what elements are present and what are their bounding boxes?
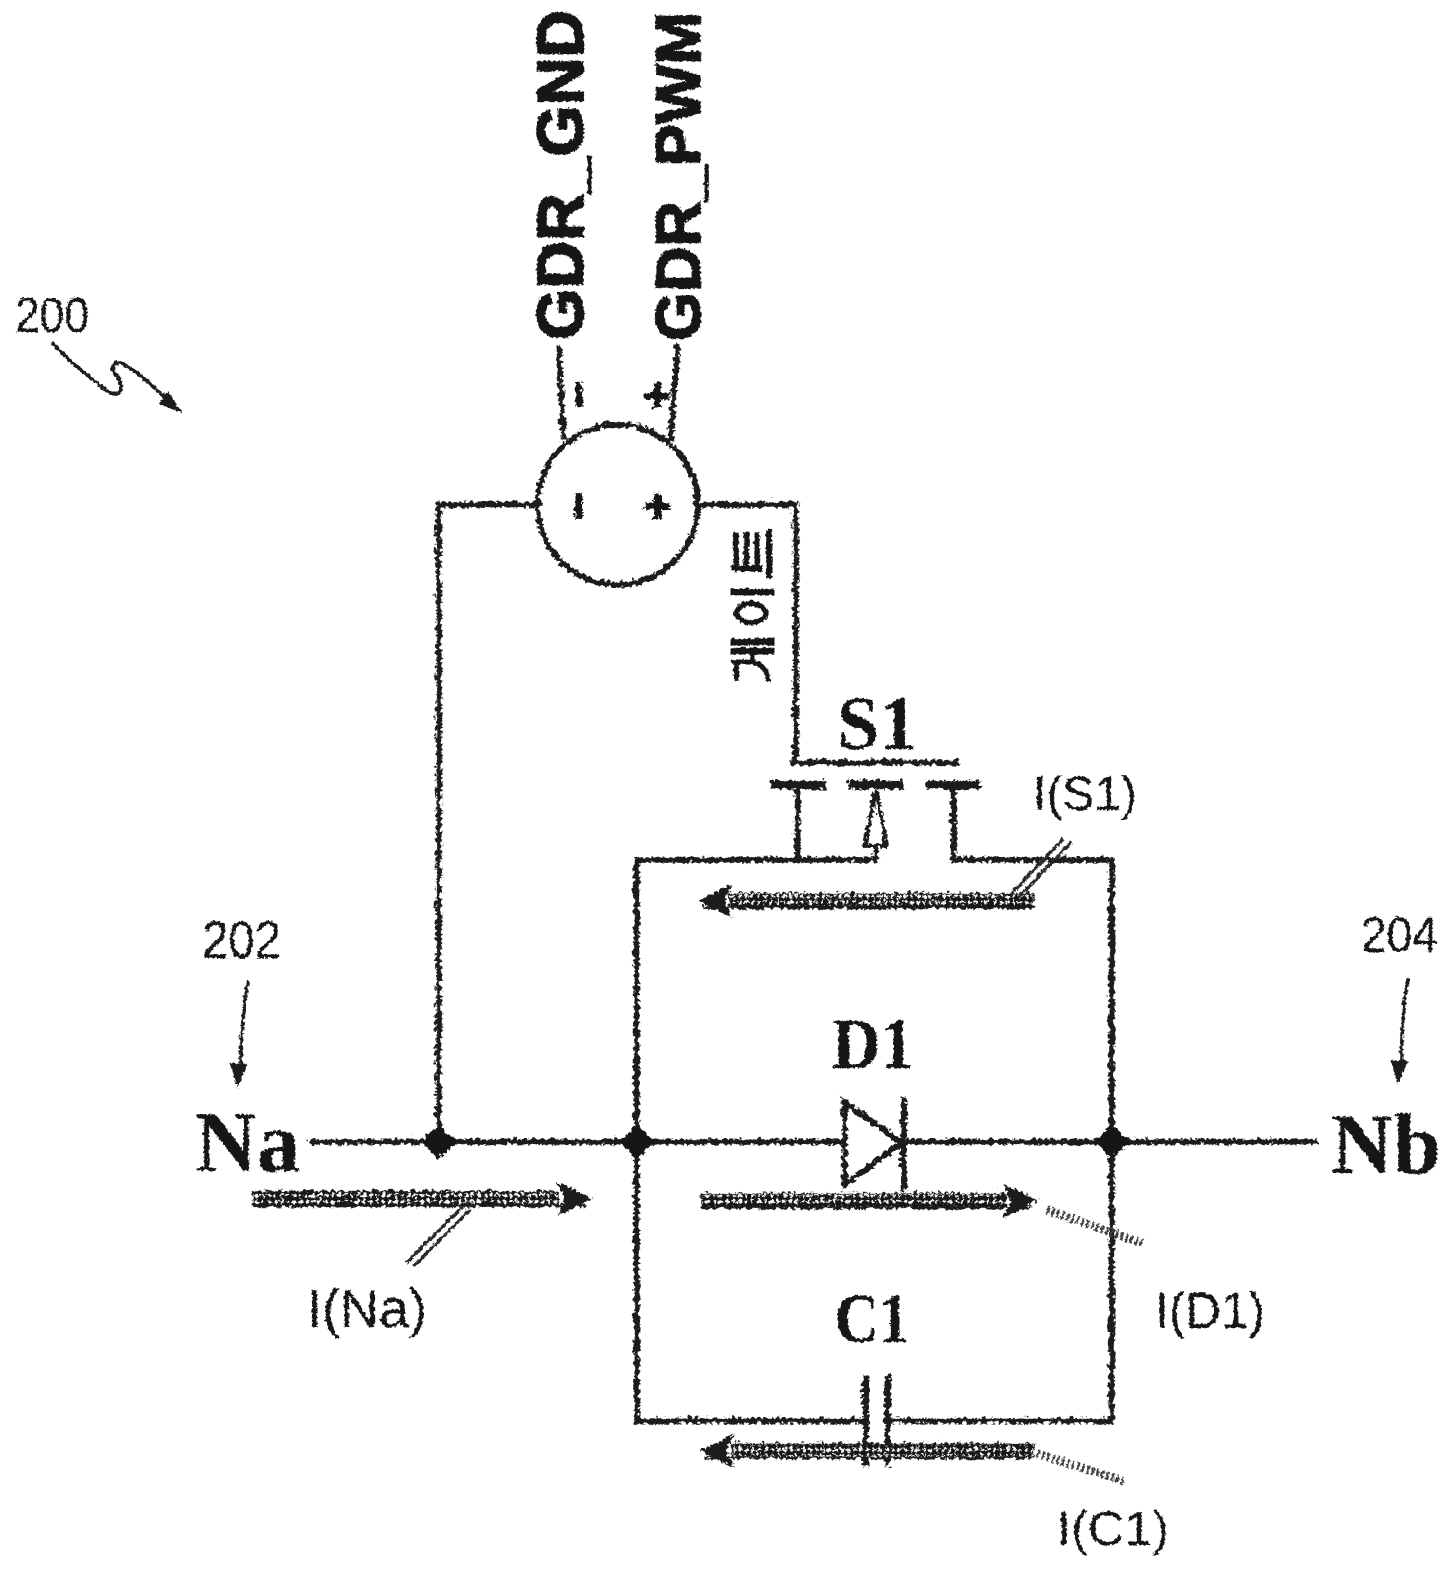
current arrow I(C1) shaft [730, 1442, 1032, 1455]
wire box left edge [632, 858, 638, 1419]
current arrow I(Na) shaft [252, 1190, 556, 1203]
leader hatch for I(D1) [1046, 1209, 1144, 1243]
svg-text:204: 204 [1360, 906, 1437, 962]
node dot at Na/driver junction [419, 1122, 454, 1157]
leader lines [51, 342, 1407, 1480]
transistor S1 channel segments [773, 779, 820, 788]
leader slash for I(Na) [405, 1206, 469, 1265]
wires and symbols [310, 344, 1314, 1462]
label 게이트 (gate), hand-drawn hangul rotated [732, 532, 773, 678]
leader slash for I(S1) [1010, 838, 1070, 896]
transistor S1 drain lead [793, 786, 799, 858]
transistor S1 body arrow head [863, 789, 885, 844]
wire box top-left segment [635, 855, 874, 861]
svg-text:I(Na): I(Na) [306, 1278, 426, 1338]
current arrow I(D1) bottom edge [700, 1205, 1032, 1208]
svg-text:GDR_GND: GDR_GND [522, 9, 596, 339]
polarity minus above driver [574, 380, 581, 405]
transistor S1 body arrow shaft [872, 843, 877, 858]
current arrow I(S1) bottom edge [700, 905, 1032, 908]
current arrow I(Na) head [557, 1182, 589, 1212]
wire driver right output / gate lead [695, 503, 794, 758]
diode D1 cathode bar [899, 1098, 905, 1187]
wire box top-right segment [952, 855, 1110, 861]
current arrow I(Na) bottom edge [252, 1203, 584, 1206]
reference arrow 200 squiggle [51, 342, 168, 401]
svg-text:Na: Na [194, 1093, 299, 1189]
hangul 게 (rotated) [732, 638, 773, 645]
diode D1 triangle [843, 1100, 900, 1183]
svg-text:I(D1): I(D1) [1154, 1281, 1264, 1338]
wire driver left output to node A [437, 503, 537, 1136]
svg-text:200: 200 [14, 288, 88, 342]
current arrow I(C1) head [699, 1434, 731, 1464]
hangul 트 (rotated) [735, 534, 756, 565]
svg-text:202: 202 [201, 910, 280, 969]
reference arrow 204 [1401, 977, 1407, 1066]
capacitor C1 left plate [861, 1376, 867, 1462]
wire GDR_PWM lead [669, 344, 676, 437]
transistor S1 gate bar [791, 758, 955, 764]
svg-text:Nb: Nb [1330, 1095, 1440, 1191]
current arrow I(S1) shaft [728, 892, 1032, 905]
wire GDR_GND lead [557, 346, 562, 436]
polarity minus inside driver [574, 491, 581, 517]
node dot at box left junction [617, 1122, 652, 1157]
reference arrow 202 [240, 980, 247, 1066]
capacitor C1 right plate [883, 1376, 889, 1462]
polarity plus inside driver [643, 491, 668, 517]
current arrow I(D1) shaft [700, 1192, 1004, 1205]
current arrow I(S1) head [697, 884, 729, 914]
wire box bottom-right segment [888, 1416, 1110, 1422]
svg-text:I(C1): I(C1) [1056, 1502, 1168, 1555]
svg-text:C1: C1 [834, 1280, 908, 1357]
svg-text:S1: S1 [836, 681, 916, 765]
svg-text:I(S1): I(S1) [1032, 767, 1136, 820]
wire main line Na to Nb [310, 1137, 1314, 1143]
hangul 이 (rotated) [732, 588, 773, 594]
svg-text:D1: D1 [831, 1003, 913, 1083]
wire box bottom-left segment [635, 1416, 862, 1422]
current arrows (halftone) [252, 884, 1035, 1464]
gate driver U1 (isolated driver circle) [536, 423, 696, 583]
leader hatch for I(C1) [1036, 1453, 1124, 1480]
polarity plus above driver [643, 381, 668, 407]
current arrow I(C1) bottom edge [702, 1455, 1032, 1458]
transistor S1 source lead [949, 786, 955, 858]
wire box right edge [1107, 858, 1113, 1419]
node dot at box right junction [1092, 1122, 1127, 1157]
svg-text:GDR_PWM: GDR_PWM [643, 11, 713, 340]
current arrow I(D1) head [1003, 1184, 1035, 1214]
